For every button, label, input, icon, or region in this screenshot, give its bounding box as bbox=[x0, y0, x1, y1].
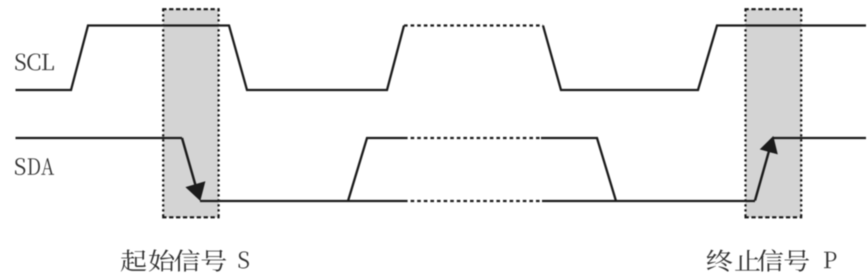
label SCL - letter L bbox=[42, 54, 54, 70]
wire SCL: low, rise, high through start box, fall, low, rise bbox=[16, 26, 405, 91]
label stop signal: 止 bbox=[735, 250, 760, 271]
label stop signal: P bbox=[824, 252, 836, 268]
label SDA - letter A bbox=[41, 158, 54, 174]
wire SCL: fall, low, rise, high through stop box bbox=[543, 26, 866, 91]
start-condition box dotted left edge bbox=[162, 9, 164, 217]
stop-condition box dotted right edge bbox=[800, 9, 802, 217]
wire SCL: dotted high (clock pulses omitted) bbox=[404, 24, 543, 26]
start-condition box dotted bottom edge bbox=[162, 216, 219, 218]
label start signal: 号 bbox=[202, 250, 227, 272]
stop-condition box dotted left edge bbox=[744, 9, 746, 217]
label SCL - letter S bbox=[15, 53, 25, 70]
arrow: SDA rising edge inside stop box bbox=[755, 137, 777, 201]
label stop signal: 号 bbox=[784, 250, 809, 272]
label SCL - letter C bbox=[27, 53, 40, 70]
label stop signal: 终 bbox=[707, 250, 733, 272]
wire SDA: data-bit rise and solid high shoulder bbox=[348, 138, 404, 201]
arrow: SDA falling edge inside start box bbox=[182, 138, 205, 200]
label start signal: 始 bbox=[149, 249, 174, 271]
label start signal: 起 bbox=[121, 250, 146, 272]
label SDA - letter D bbox=[28, 158, 40, 174]
start-condition highlight box fill bbox=[163, 9, 218, 217]
stop-condition box dotted bottom edge bbox=[745, 216, 803, 218]
wire SDA: high level after stop condition bbox=[773, 137, 866, 139]
label SDA - letter S bbox=[15, 158, 25, 175]
wire SDA: high level before start condition bbox=[16, 137, 183, 139]
wire SDA: low level after start falling edge bbox=[200, 200, 404, 202]
wire SDA: dotted low (data bits omitted) bbox=[404, 200, 542, 202]
stop-condition box dotted top edge bbox=[745, 8, 803, 10]
wire SDA: solid high shoulder and data-bit fall bbox=[541, 138, 616, 201]
start-condition box dotted top edge bbox=[162, 8, 219, 10]
label start signal: S bbox=[238, 251, 248, 268]
wire SDA: low level up to stop box bbox=[542, 200, 755, 202]
start-condition box dotted right edge bbox=[218, 9, 220, 217]
stop-condition highlight box fill bbox=[746, 9, 802, 217]
wire SDA: dotted high (data bits omitted) bbox=[404, 137, 541, 139]
label stop signal: 信 bbox=[758, 249, 783, 271]
label start signal: 信 bbox=[174, 249, 199, 271]
